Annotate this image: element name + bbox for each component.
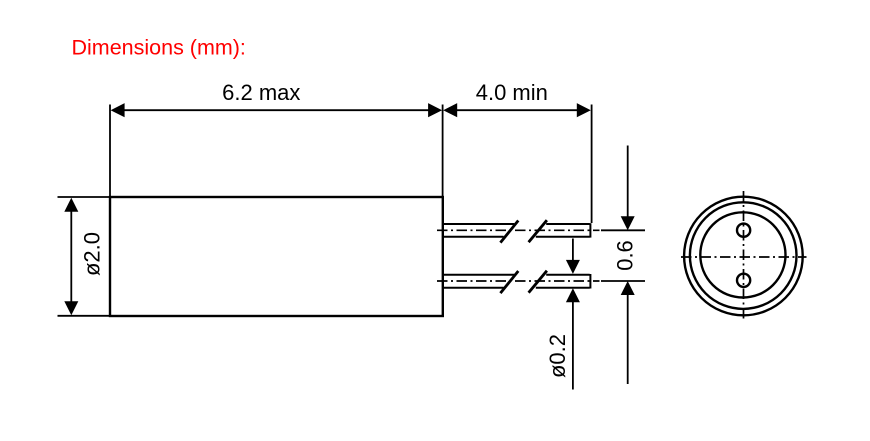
end view middle circle: [690, 202, 797, 309]
dimension 0.6 : arrows: [621, 146, 635, 385]
bottom lead centerline: [437, 280, 600, 282]
top lead centerline: [437, 229, 600, 231]
top lead outline: [443, 223, 590, 237]
dimension diameter 0.2 : arrows: [566, 239, 580, 390]
dimension 6.2 max : line and arrows: [111, 103, 443, 117]
extension line right of 4.0 min (x=591.6): [591, 105, 593, 224]
break marks on top lead: [500, 220, 547, 242]
svg-text:6.2 max: 6.2 max: [222, 80, 300, 105]
svg-text:Dimensions (mm):: Dimensions (mm):: [72, 36, 246, 60]
extension lines for diameter 2.0 (left): [58, 197, 110, 316]
svg-text:4.0 min: 4.0 min: [476, 80, 548, 105]
extension lines for 0.6: [601, 230, 645, 281]
end view inner circle: [700, 212, 785, 297]
extension line body right edge extended up (x=442.5): [442, 105, 444, 197]
end view outer circle: [684, 197, 803, 316]
svg-text:0.6: 0.6: [613, 240, 638, 271]
svg-text:ø0.2: ø0.2: [545, 334, 570, 378]
end view horizontal centerline: [681, 256, 807, 258]
bottom lead outline: [443, 274, 590, 289]
crystal body outline (side view): [110, 197, 443, 316]
end view vertical centerline: [743, 191, 745, 321]
dimension diameter 2.0 : vertical line and arrows: [64, 198, 78, 315]
extension line left (x=110 above body): [109, 105, 111, 197]
end view bottom lead hole: [737, 274, 750, 287]
break marks on bottom lead: [500, 271, 547, 293]
end view top lead hole: [737, 224, 750, 237]
svg-text:ø2.0: ø2.0: [80, 232, 105, 276]
dimension 4.0 min : line and arrows: [443, 103, 591, 117]
